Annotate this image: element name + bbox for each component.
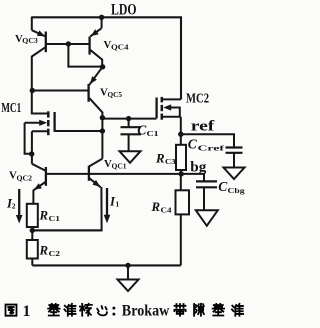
node VQC5 base tee [30,88,35,93]
resistor RC4 [176,190,190,214]
wire MC2 source down [180,117,182,135]
wire MC1 bulk arrow [25,122,42,124]
svg-text:C: C [188,136,198,151]
wire RC2 to ground rail [31,259,33,266]
capacitor CCref [226,148,243,168]
svg-text:QC4: QC4 [111,43,129,52]
caption: colon [113,307,116,310]
caption: 基 [48,304,59,316]
node MC1 gate tee [100,128,105,133]
wire MC1 bulk down [25,123,32,154]
svg-text:R: R [39,208,49,222]
caption: 准 [232,304,243,316]
caption: 基 [213,304,224,316]
svg-text:C1: C1 [147,129,159,138]
wire VQC2 emitter down [32,190,34,204]
node rail junction (VQC4 emitter) [99,15,104,20]
wire MC1 source down [31,131,33,155]
wire emitters join [32,229,101,231]
transistor VQC4 [90,17,103,59]
node base tee [66,41,71,46]
caption: 准 [64,304,75,316]
svg-text:QC3: QC3 [22,36,38,45]
wire MC2 drain stub [162,98,181,100]
wire VQC5 collector down [101,112,103,119]
wire right rail drop to MC2 drain [180,17,182,99]
svg-text:ref: ref [191,119,215,135]
wire VQC3 collector down [31,56,33,115]
transistor VQC1 [89,159,103,188]
svg-text:R: R [151,200,161,214]
svg-text:C3: C3 [165,157,176,166]
wire MC1 drain stub [32,113,49,115]
svg-text:C4: C4 [161,205,172,214]
svg-text:C1: C1 [49,214,61,223]
capacitor CC1 [121,119,142,152]
transistor VQC2 [32,164,46,191]
wire bg to RC4 [180,174,182,190]
svg-text:Brokaw: Brokaw [122,303,170,320]
current arrow I1 [106,188,108,216]
wire VQC4 collector down [101,59,103,67]
wire RC4 down to ground rail [180,214,182,265]
node ref [178,132,183,137]
resistor RC1 [27,204,38,227]
transistor MC2 [157,97,162,120]
svg-text:MC2: MC2 [186,92,209,107]
wire node to RC2 [31,230,33,240]
svg-text:QC2: QC2 [17,173,33,182]
wire RC3 to bg [180,170,182,175]
wire VQC1 emitter down [32,187,101,230]
node RC1/RC2 junction [30,228,35,233]
ground under CCref [224,168,245,180]
caption: 心 [97,306,107,315]
node high-gain node [100,115,105,120]
wire VQC5 base [32,90,88,92]
svg-text:1: 1 [116,200,120,209]
wire base-to-collector loop [68,44,102,67]
node MC1 source junction [29,151,34,156]
resistor RC2 [27,240,38,259]
node ground tap [125,263,130,268]
svg-text:C2: C2 [49,249,61,258]
caption: 隙 [194,304,204,316]
transistor MC1 [48,111,54,135]
current arrow I2 [18,189,20,217]
wire MC2 gate [102,118,156,120]
ground under CCbg [196,210,218,226]
wire MC2 source stub [162,116,181,118]
node VQC4 collector / VQC5 emitter [100,64,105,69]
svg-text:Cbg: Cbg [228,186,245,195]
wire MC1 gate [55,130,103,132]
wire VQC2 collector up [31,154,33,164]
svg-text:MC1: MC1 [1,101,21,116]
ground under CC1 [120,151,141,163]
caption: 图 [6,305,17,316]
transistor VQC5 [89,67,103,113]
svg-text:Cref: Cref [198,144,225,153]
wire MC2 bulk arrow [169,108,180,118]
node CC1 tap [126,116,131,121]
ground main [118,280,139,292]
wire ref to RC3 [180,134,182,145]
svg-text:QC5: QC5 [108,90,123,99]
transistor VQC3 [32,17,46,57]
wire bases to bg [46,173,181,175]
wire ground stub [127,265,129,279]
capacitor CCbg [196,181,217,210]
svg-text:1: 1 [23,303,31,320]
wire LDO supply rail [32,16,182,18]
svg-text:R: R [155,151,165,165]
wire RC1 to node [31,227,33,232]
caption: 带 [174,304,185,316]
wire ground rail [32,264,181,266]
svg-text:2: 2 [12,202,16,211]
wire bg to CCbg [181,174,204,182]
wire VQC1 collector [101,118,103,159]
caption: 核 [80,304,92,316]
node bg [179,171,184,176]
svg-text:R: R [39,243,49,257]
wire ref to CCref [181,134,234,147]
resistor RC3 [176,145,186,170]
svg-text:LDO: LDO [111,2,137,19]
wire MC1 source stub [32,130,48,132]
wire VQC3-VQC4 bases [46,43,90,45]
svg-text:QC1: QC1 [112,162,127,171]
